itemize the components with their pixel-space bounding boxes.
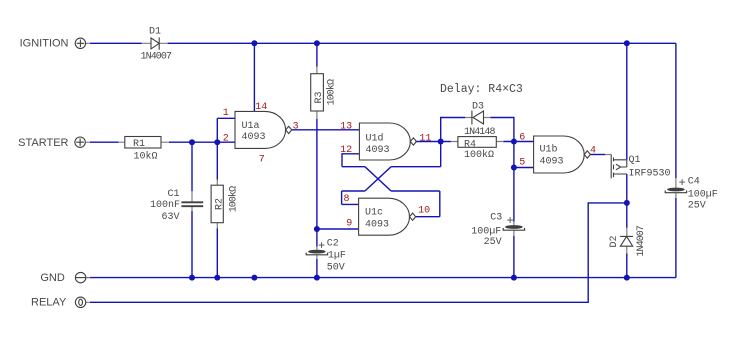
svg-text:100kΩ: 100kΩ [228,186,240,212]
svg-text:4: 4 [590,146,596,157]
svg-text:1: 1 [223,108,229,119]
svg-text:6: 6 [519,132,525,143]
svg-text:63V: 63V [162,212,180,223]
svg-text:2: 2 [223,133,229,144]
svg-text:12: 12 [340,145,352,156]
svg-text:IGNITION: IGNITION [20,38,69,50]
svg-text:13: 13 [340,121,352,132]
svg-text:100nF: 100nF [150,200,180,211]
svg-text:3: 3 [293,122,299,133]
svg-text:RELAY: RELAY [31,297,67,309]
svg-text:GND: GND [40,272,65,284]
svg-text:100kΩ: 100kΩ [464,149,494,161]
svg-text:4093: 4093 [365,220,389,231]
svg-text:25V: 25V [688,201,706,212]
svg-text:4093: 4093 [366,145,390,156]
svg-text:U1b: U1b [540,144,558,156]
svg-text:1µF: 1µF [328,251,346,262]
svg-text:50V: 50V [327,263,345,274]
svg-text:100kΩ: 100kΩ [326,79,338,105]
svg-text:U1d: U1d [366,133,384,145]
svg-text:R3: R3 [314,91,325,103]
svg-text:1N4007: 1N4007 [141,52,173,63]
svg-text:C1: C1 [168,189,180,200]
svg-text:C2: C2 [327,239,339,250]
svg-text:C4: C4 [688,177,700,188]
svg-text:7: 7 [259,155,265,166]
svg-text:R2: R2 [215,198,226,210]
svg-text:9: 9 [346,219,352,230]
svg-text:4093: 4093 [242,132,266,143]
svg-text:11: 11 [419,134,431,145]
svg-text:U1a: U1a [242,121,260,132]
svg-text:Q1: Q1 [629,155,641,166]
svg-text:U1c: U1c [365,207,383,218]
svg-text:STARTER: STARTER [18,137,68,149]
svg-text:R4: R4 [464,139,476,150]
svg-text:+: + [318,239,325,253]
svg-text:14: 14 [255,102,267,113]
svg-text:C3: C3 [490,213,502,224]
svg-text:Delay: R4×C3: Delay: R4×C3 [440,83,523,96]
svg-text:R1: R1 [133,139,145,150]
svg-text:D1: D1 [149,27,161,38]
svg-text:+: + [679,176,686,190]
svg-text:100µF: 100µF [688,190,718,201]
svg-text:4093: 4093 [540,157,564,168]
svg-text:25V: 25V [484,237,502,248]
svg-text:5: 5 [519,158,525,169]
svg-text:IRF9530: IRF9530 [629,169,671,180]
svg-text:D2: D2 [609,235,620,247]
svg-text:10: 10 [418,205,430,216]
svg-text:1N4148: 1N4148 [464,127,496,138]
svg-text:10kΩ: 10kΩ [134,151,158,163]
svg-text:+: + [507,214,514,228]
svg-text:D3: D3 [472,101,484,112]
svg-text:1N4007: 1N4007 [636,225,647,257]
svg-text:8: 8 [344,194,350,205]
